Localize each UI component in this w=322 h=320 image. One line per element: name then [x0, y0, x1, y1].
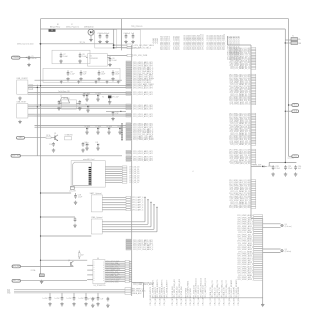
wire shield row: [35, 79, 123, 81]
esd diode row 1 D2: [85, 93, 91, 101]
svg-text:CPU_VDD_3V3B: CPU_VDD_3V3B: [133, 55, 148, 57]
ground below C1: [27, 63, 30, 67]
svg-text:x: x: [103, 267, 104, 269]
wire feeder vertical x122 mid: [121, 124, 123, 141]
svg-text:1uF: 1uF: [298, 168, 302, 170]
wire jog upper to lower: [251, 217, 263, 219]
wire row2 bus: [35, 126, 127, 128]
wire U1 row to pin: [107, 54, 127, 56]
svg-text:x: x: [94, 267, 95, 269]
svg-text:1k: 1k: [86, 104, 88, 106]
svg-text:L2: L2: [60, 96, 62, 98]
svg-text:CPU_LCD_DATA3_R4_LD: CPU_LCD_DATA3_R4_LD: [230, 67, 251, 70]
wire TP branch: [41, 42, 114, 44]
svg-text:CPU_GPIO2_AC19_GP2: CPU_GPIO2_AC19_GP2: [133, 152, 153, 155]
wire J2 rows to column: [35, 105, 127, 116]
svg-text:N1: N1: [57, 24, 59, 26]
svg-text:R2 1k: R2 1k: [46, 135, 50, 137]
ground below C22: [106, 304, 109, 308]
capacitor C27 bus decoupling: [91, 297, 100, 301]
central IC pin rows group H: [126, 156, 153, 163]
svg-text:CPU_MII1_CRS3: CPU_MII1_CRS3: [179, 36, 181, 50]
capacitor C24 bus decoupling: [55, 297, 64, 301]
esd diode row 3 D11: [96, 142, 100, 150]
chip U4 box: [93, 258, 106, 287]
esd diode row 2 D9: [118, 126, 124, 134]
svg-text:x: x: [103, 273, 104, 275]
svg-text:x: x: [94, 262, 95, 264]
ground below C10: [79, 77, 82, 81]
pin label VDD_5V: [127, 44, 155, 47]
bus line VDD1: [7, 289, 125, 291]
svg-text:1.1uF: 1.1uF: [78, 197, 83, 199]
svg-text:24M: 24M: [298, 43, 302, 45]
connector SYS oval: [12, 265, 73, 268]
staircase junction dots: [144, 197, 157, 208]
bus cap stubs: [50, 293, 98, 297]
ground at right IC bottom: [261, 303, 264, 307]
capacitor C23 bus decoupling: [43, 297, 52, 301]
label junction note: [17, 43, 34, 46]
svg-text:x: x: [103, 263, 104, 265]
ground below F1: [40, 280, 43, 284]
svg-text:CPU_I2C1_SDA_AB14_S: CPU_I2C1_SDA_AB14_S: [133, 248, 154, 251]
capacitor C2 100uF: [98, 33, 105, 39]
svg-text:CPU_UART1_RXD_D15: CPU_UART1_RXD_D15: [204, 278, 207, 298]
svg-text:x: x: [103, 269, 104, 271]
svg-text:D3 ESD: D3 ESD: [96, 93, 102, 95]
microSD contact pins: [89, 167, 92, 185]
svg-text:CPU_GPMC_AD5_V8_DDR: CPU_GPMC_AD5_V8_DDR: [229, 206, 251, 209]
svg-text:Q1: Q1: [54, 133, 56, 135]
svg-text:CPU_SPI0_CS0_: CPU_SPI0_CS0_: [106, 281, 119, 283]
capacitor C30 rail: [294, 165, 301, 170]
svg-text:x: x: [103, 265, 104, 267]
svg-text:CPU_GPIO2_AC19_GP2: CPU_GPIO2_AC19_GP2: [133, 115, 153, 118]
ferrite label: [58, 91, 70, 93]
connector GND oval: [17, 136, 46, 139]
svg-text:CPU_XDMA_EVENT7: CPU_XDMA_EVENT7: [165, 280, 168, 298]
svg-text:32k: 32k: [298, 39, 301, 41]
capacitor C20 on branch: [74, 217, 77, 222]
svg-text:x: x: [103, 276, 104, 278]
svg-text:Q2: Q2: [68, 260, 70, 262]
feeder junction dots: [121, 123, 122, 140]
connector PMIC oval: [12, 279, 87, 282]
ground below C12: [111, 77, 114, 81]
svg-text:JTAG_Optional: JTAG_Optional: [91, 216, 103, 219]
note tl: [193, 170, 194, 173]
svg-text:x: x: [103, 274, 104, 276]
svg-text:1u 25V: 1u 25V: [67, 298, 73, 300]
ground below C5: [131, 40, 134, 44]
diode D1 circle: [88, 29, 94, 35]
wire branch y193: [40, 192, 71, 193]
esd diode row 2 D7: [96, 126, 102, 134]
svg-text:USB_CLIENT: USB_CLIENT: [17, 78, 29, 80]
svg-text:VDDS_DDR: VDDS_DDR: [253, 165, 263, 167]
svg-text:L1 2.2uH: L1 2.2uH: [69, 191, 76, 193]
esd diode row 2 D6: [85, 126, 91, 134]
central IC pin rows group E: [126, 113, 153, 118]
wire left power vertical: [40, 19, 42, 59]
ground below C14: [78, 106, 81, 110]
svg-text:1u 25V: 1u 25V: [43, 298, 49, 300]
ground below C28: [271, 172, 274, 176]
wire left vertical B: [36, 85, 38, 156]
svg-text:microSD Card: microSD Card: [83, 159, 94, 161]
wire branch y260: [40, 260, 87, 261]
shield grounds row: [60, 80, 120, 83]
wire VIN bus: [41, 28, 286, 30]
wire left vertical A end: [41, 273, 42, 275]
esd diode row 3 D10: [85, 142, 89, 150]
transistor Q2: [68, 260, 73, 267]
svg-text:CPU_PWM0_AB15_EHRP: CPU_PWM0_AB15_EHRP: [133, 138, 155, 141]
svg-text:U4: U4: [97, 258, 99, 260]
svg-text:C? 1.1uF: C? 1.1uF: [112, 96, 119, 98]
svg-text:(2.Gn ms): (2.Gn ms): [285, 226, 292, 228]
svg-text:x: x: [94, 276, 95, 278]
svg-text:1u 25V: 1u 25V: [79, 298, 85, 300]
svg-text:CPU_GPMC_AD10_: CPU_GPMC_AD10_: [237, 278, 253, 281]
right IC upper body line: [250, 45, 252, 218]
svg-text:U3 NB2HG: U3 NB2HG: [65, 135, 74, 137]
svg-text:PMIC_INT: PMIC_INT: [12, 280, 21, 282]
svg-text:F1 2A: F1 2A: [31, 269, 36, 272]
connector J2 USB box: [17, 102, 28, 118]
microSD pin labels: [122, 166, 139, 184]
ground below C30: [294, 172, 297, 176]
right IC rows group 4: [229, 149, 256, 166]
svg-text:C2 100uF: C2 100uF: [98, 33, 105, 35]
wire SD rows to column: [127, 166, 132, 168]
svg-text:TL5209DR: TL5209DR: [89, 58, 98, 60]
resistor R2 1k: [46, 135, 55, 138]
svg-text:CPU_I2C0_SDA_C17: CPU_I2C0_SDA_C17: [225, 280, 228, 298]
svg-text:x: x: [94, 280, 95, 282]
bus line GND: [7, 293, 125, 295]
svg-text:7mOe Beee 150: 7mOe Beee 150: [58, 91, 70, 93]
svg-text:1u 25V: 1u 25V: [91, 298, 97, 300]
junctions on left verticals: [37, 85, 41, 107]
ground below C18: [74, 201, 77, 205]
wire J1 rows to column: [35, 86, 127, 95]
connector J4 UART box: [90, 192, 103, 212]
svg-text:100 uF: 100 uF: [31, 58, 37, 60]
bottom rotated net labels: [149, 278, 240, 306]
svg-text:x: x: [94, 269, 95, 271]
wire branch y217: [40, 216, 75, 217]
wire entry to right IC: [228, 36, 252, 45]
svg-text:x: x: [94, 273, 95, 275]
svg-text:22uF: 22uF: [101, 74, 106, 76]
esd diode row 1 D3: [96, 93, 102, 101]
ground below C29: [284, 172, 287, 176]
regulator U2 box: [59, 98, 80, 109]
ground below D1: [89, 35, 92, 42]
connector 3V3 oval: [11, 154, 122, 157]
capacitor C10: [80, 70, 87, 75]
capacitor C31 1uF: [112, 111, 119, 115]
connector J2 pins: [28, 105, 35, 116]
ground below C26: [84, 302, 87, 306]
right IC rows group 5: [229, 179, 256, 209]
svg-text:SCL: SCL: [293, 105, 297, 107]
svg-text:5VDC barrel 2.1mm: 5VDC barrel 2.1mm: [17, 43, 34, 46]
wire row SYS_5V: [114, 47, 127, 49]
svg-text:Y2: Y2: [102, 96, 104, 98]
svg-text:Y1: Y1: [292, 36, 294, 38]
svg-text:CPU_SPI0_CLK_: CPU_SPI0_CLK_: [106, 272, 119, 274]
wire to LED D14: [263, 224, 281, 228]
ground below J1: [18, 96, 21, 100]
wire branch y236: [40, 235, 91, 236]
svg-text:22uF: 22uF: [115, 74, 120, 76]
component B3 NB2HG: [65, 135, 74, 140]
connector J5 pins: [102, 222, 157, 232]
microSD pin stubs: [105, 167, 122, 182]
ground below C2: [98, 40, 101, 44]
chip U4 left pins: [87, 265, 93, 279]
svg-text:TP_5V: TP_5V: [80, 42, 86, 44]
svg-text:1.0uF: 1.0uF: [63, 56, 68, 58]
ground below C8: [78, 59, 81, 63]
power cap rail: [267, 162, 297, 167]
ground below C24: [60, 302, 63, 306]
svg-text:2.2uF: 2.2uF: [288, 168, 293, 170]
svg-text:SYS_RST: SYS_RST: [12, 266, 21, 268]
svg-text:x: x: [103, 262, 104, 264]
svg-text:CPU_GPMC_AD4_U8_DD: CPU_GPMC_AD4_U8_DD: [230, 162, 251, 165]
svg-text:C4 10uF: C4 10uF: [124, 33, 130, 35]
svg-text:C16: C16: [49, 144, 52, 146]
capacitor C18: [74, 193, 83, 199]
svg-text:CPU_MII1_RXD111: CPU_MII1_RXD111: [202, 34, 204, 50]
net label BLOB on VIN bus: [49, 30, 55, 33]
svg-text:CPU_GPIO2_AC19_GP2: CPU_GPIO2_AC19_GP2: [133, 86, 153, 89]
svg-text:CPU_MII1_COL5: CPU_MII1_COL5: [169, 36, 171, 50]
ground below C21: [91, 304, 94, 308]
central IC pin rows group C: [126, 91, 153, 96]
svg-text:CPU_EMU1_MCASP4: CPU_EMU1_MCASP4: [237, 287, 240, 306]
connector right oval 3: [289, 155, 299, 158]
ground below J2: [18, 120, 21, 124]
capacitor C7: [60, 53, 69, 58]
capacitor C25 bus decoupling: [67, 297, 76, 301]
capacitor C15: [83, 93, 90, 97]
svg-text:x: x: [103, 271, 104, 273]
label power section title: [50, 24, 93, 28]
pin label U1 out: [127, 54, 148, 57]
svg-text:CPU_MII1_TXD210: CPU_MII1_TXD210: [224, 34, 226, 50]
right IC rows group 1: [229, 47, 256, 70]
chip U4 inner pin marks: [94, 262, 105, 283]
ground below C11: [97, 77, 100, 81]
svg-text:CPU_ECAP0_PWM2: CPU_ECAP0_PWM2: [189, 288, 192, 306]
svg-text:U2 LDO: U2 LDO: [63, 98, 70, 100]
svg-text:x: x: [94, 278, 95, 280]
svg-text:U4_TPS65217x: U4_TPS65217x: [94, 285, 106, 287]
svg-text:CPU_GPMC_AD14_V13_D: CPU_GPMC_AD14_V13_D: [229, 103, 251, 106]
svg-text:C15: C15: [86, 94, 89, 96]
capacitor C9: [67, 70, 76, 75]
ground below C3: [105, 40, 108, 44]
short rail stubs left of cluster1: [152, 38, 159, 44]
svg-text:CPU_GPIO3_AB1: CPU_GPIO3_AB1: [106, 260, 119, 263]
wire feeder vertical x121: [121, 19, 123, 51]
svg-text:(2.9d ms): (2.9d ms): [285, 251, 292, 253]
capacitor C4 10uF: [124, 33, 130, 39]
ground below C6: [108, 63, 111, 67]
pwr caps box left: [52, 50, 90, 64]
bottom bus wire: [151, 297, 262, 299]
svg-text:BB ael Flow: BB ael Flow: [50, 26, 61, 28]
svg-text:x: x: [103, 278, 104, 280]
resistor R3 4k7: [78, 251, 83, 260]
capacitor bank box 1: [95, 30, 117, 48]
svg-text:tl: tl: [193, 170, 194, 173]
svg-text:x: x: [94, 265, 95, 267]
connector J1 pins: [28, 86, 35, 95]
capacitor C16: [49, 142, 55, 147]
wire top right corner A: [288, 19, 290, 157]
pwr caps box lower: [43, 68, 120, 82]
svg-text:CPU_SYS_5V_VBC.5: CPU_SYS_5V_VBC.5: [133, 48, 151, 50]
capacitor C29 rail: [284, 165, 293, 170]
capacitor C12: [112, 70, 120, 75]
svg-text:D4: D4: [285, 224, 287, 226]
connector PWRIN: [12, 56, 41, 59]
central IC rows y283: [133, 281, 155, 286]
capacitor C6 at U1 out: [109, 56, 118, 61]
capacitor C8: [79, 53, 88, 58]
wire top right corner B: [284, 29, 286, 163]
capacitor C14 at U2 out: [79, 100, 82, 105]
crystal Y2: [102, 96, 119, 99]
svg-text:VD2: VD2: [7, 291, 10, 293]
svg-text:CPU_GPIO3_AB18_GP3: CPU_GPIO3_AB18_GP3: [133, 159, 153, 162]
fuse F1 block: [31, 269, 45, 276]
ground below Y2: [108, 98, 111, 104]
junction to oscillator: [285, 40, 291, 44]
capacitor C5 1uF: [131, 33, 134, 39]
svg-text:VD1: VD1: [7, 289, 10, 291]
svg-text:4k7: 4k7: [81, 255, 84, 257]
connector J5 box: [91, 216, 103, 234]
right IC wire y166: [251, 165, 262, 167]
svg-text:x: x: [94, 271, 95, 273]
transistor Q1: [54, 133, 58, 141]
resistor R1 array: [29, 85, 33, 90]
wire y111: [106, 111, 126, 112]
svg-text:UART_Optional: UART_Optional: [90, 192, 102, 195]
connector J4 pins to column: [102, 196, 143, 212]
ground below C17: [81, 148, 84, 152]
svg-text:CPU_GPIO3_AB18_GP3: CPU_GPIO3_AB18_GP3: [133, 108, 153, 111]
right IC lower body line: [262, 218, 264, 304]
wire left vertical A: [40, 58, 42, 274]
capacitor C11: [98, 70, 106, 75]
capacitor C26 bus decoupling: [79, 297, 88, 301]
node junction on left vertical: [40, 43, 42, 45]
ground below C7: [59, 59, 62, 63]
svg-text:GND: GND: [7, 293, 11, 295]
microSD outer box: [71, 159, 105, 187]
ground below C13: [57, 106, 60, 110]
svg-text:CPU_UART_5: CPU_UART_5: [132, 209, 143, 212]
svg-text:1uF: 1uF: [131, 33, 134, 35]
svg-text:(+3.3V): (+3.3V): [288, 157, 294, 159]
svg-text:CPU_SPI0_SCLK_A14: CPU_SPI0_SCLK_A14: [180, 286, 183, 305]
connector shell shape: [60, 96, 70, 104]
rail +3.3V label: [288, 157, 294, 159]
capacitor C13 at U2 in: [58, 100, 61, 105]
right IC rows group 3: [229, 113, 256, 146]
svg-text:GNDA_ADC: GNDA_ADC: [132, 292, 142, 295]
svg-text:D3: D3: [285, 249, 287, 251]
label above box2: [131, 26, 143, 28]
svg-text:+3V3A2: +3V3A2: [156, 38, 159, 44]
ground below C25: [72, 302, 75, 306]
regulator U1 box: [86, 54, 110, 66]
wire diode to VIN bus: [90, 28, 92, 30]
svg-text:1u 25V: 1u 25V: [55, 298, 61, 300]
central IC pin rows group D: [126, 104, 153, 111]
microSD card shape: [73, 162, 92, 185]
svg-text:GND: GND: [19, 137, 24, 139]
right IC lower rows: [237, 214, 263, 281]
right IC rows group 2: [229, 74, 256, 106]
wire row VDD_5V: [114, 44, 127, 46]
svg-text:x: x: [94, 263, 95, 265]
wire feeder vertical x113: [113, 29, 115, 49]
top rotated net labels: [161, 34, 241, 60]
svg-text:1uF: 1uF: [101, 299, 104, 301]
wire central IC bus: [131, 45, 133, 296]
svg-text:J2: J2: [71, 24, 73, 26]
capacitor C3 0.1uF: [105, 33, 109, 39]
connector J1 USB box: [17, 78, 29, 94]
capacitor C28 rail: [272, 165, 281, 170]
ground below C16: [52, 148, 55, 152]
svg-text:USB_HOST: USB_HOST: [17, 102, 28, 104]
central IC pin rows group B: [126, 85, 153, 90]
diode D12: [262, 166, 273, 169]
svg-text:0.1uF: 0.1uF: [105, 33, 109, 35]
svg-text:CPU_LCD_DATA1_R2_LD: CPU_LCD_DATA1_R2_LD: [230, 143, 251, 146]
capacitor C1 100uF: [26, 56, 38, 60]
central IC pin rows group G: [126, 150, 153, 155]
pin label SYS_5V: [127, 47, 151, 50]
led D14: [281, 224, 292, 228]
svg-text:CPU_SD_D7: CPU_SD_D7: [129, 182, 139, 184]
svg-text:TPS_2152-LD: TPS_2152-LD: [131, 26, 143, 28]
bus line VDD2: [7, 291, 125, 293]
central IC pin rows group A: [126, 61, 155, 86]
chip U4 right pin rows: [105, 260, 132, 283]
svg-text:2.2uF: 2.2uF: [275, 168, 280, 170]
wire to LED D13: [263, 249, 281, 253]
capacitor C22: [101, 297, 110, 302]
central IC bottom-right rows: [126, 239, 154, 251]
ground below C27: [96, 302, 99, 306]
svg-text:VDD_3V3: VDD_3V3: [12, 155, 20, 157]
central IC bottom labels stack: [125, 287, 146, 295]
connector right oval 1: [288, 104, 299, 107]
svg-text:x: x: [103, 280, 104, 282]
led D13: [281, 249, 292, 253]
